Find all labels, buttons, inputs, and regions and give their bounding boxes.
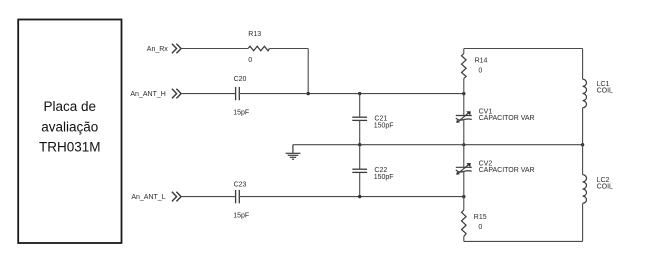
svg-text:CAPACITOR VAR: CAPACITOR VAR [479,115,535,122]
wire CV1 to middle net [463,120,465,168]
node junction C22 bottom on An_ANT_L net [358,195,361,198]
svg-text:0: 0 [248,57,252,64]
svg-text:An_ANT_H: An_ANT_H [130,91,165,98]
svg-text:Placa de: Placa de [44,99,97,114]
port An_ANT_L [172,192,181,202]
port An_ANT_H [172,89,181,99]
svg-text:An_Rx: An_Rx [147,46,169,53]
ground [286,145,301,160]
wire right vertical top segment [582,49,584,80]
svg-text:TRH031M: TRH031M [39,140,101,155]
wire corner down to An_ANT_H net [307,49,309,94]
capacitor C23 [233,181,249,219]
svg-text:R13: R13 [248,31,261,38]
wire bottom edge of lower loop [464,240,583,242]
node junction middle net at right vertical [581,143,584,146]
wire C22 top branch [359,145,361,170]
wire C21 top branch [359,94,361,118]
svg-text:COIL: COIL [597,87,613,94]
inductor LC2 COIL [583,175,613,204]
evaluation board box Placa de avaliação TRH031M [18,20,121,244]
node junction C21/C22 on middle net [358,143,361,146]
svg-text:C20: C20 [234,76,247,83]
capacitor C21 [352,116,393,130]
resistor R13 [248,31,270,64]
node junction middle net at left vertical [462,143,465,146]
wire An_ANT_H to C20 [181,93,236,95]
wire middle net (ground rail) [293,144,583,146]
svg-text:15pF: 15pF [233,109,249,116]
wire C22 bottom branch [359,172,361,196]
capacitor CV2 (variable) [456,160,535,174]
inductor LC1 COIL [583,79,613,108]
wire C23 to left vertical of lower loop [239,196,463,198]
svg-text:COIL: COIL [597,184,613,191]
svg-text:CAPACITOR VAR: CAPACITOR VAR [479,167,535,174]
capacitor CV1 (variable) [456,109,535,123]
svg-text:An_ANT_L: An_ANT_L [131,194,165,201]
node junction An_ANT_L at left vertical [462,195,465,198]
node junction An_ANT_H at left vertical [462,92,465,95]
wire An_Rx to R13 [181,48,248,50]
resistor R15 [462,210,487,237]
svg-text:C23: C23 [234,181,247,188]
capacitor C22 [352,167,393,181]
port An_Rx [172,44,181,54]
svg-text:R14: R14 [475,58,488,65]
wire CV2 to R15 [463,172,465,210]
capacitor C20 [233,76,249,116]
svg-text:0: 0 [478,68,482,75]
wire right vertical bottom segment [582,203,584,241]
wire An_ANT_L to C23 [181,196,236,198]
svg-text:C21: C21 [374,116,387,123]
svg-text:R15: R15 [474,214,487,221]
svg-text:15pF: 15pF [233,212,249,219]
wire top edge to R14 [463,49,465,54]
resistor R14 [462,54,488,79]
wire right vertical middle segment [582,108,584,175]
wire C21 bottom branch [359,120,361,144]
wire R14 to CV1 [463,79,465,116]
svg-text:150pF: 150pF [374,123,394,130]
wire C20 to left vertical of upper loop [239,93,463,95]
svg-text:0: 0 [478,224,482,231]
svg-text:avaliação: avaliação [41,119,98,134]
node junction C21 top [358,92,361,95]
wire top edge of upper loop [464,48,583,50]
wire R13 to corner [270,48,309,50]
node junction An_Rx/An_ANT_H [307,92,310,95]
svg-text:150pF: 150pF [374,174,394,181]
wire R15 to bottom edge [463,237,465,242]
